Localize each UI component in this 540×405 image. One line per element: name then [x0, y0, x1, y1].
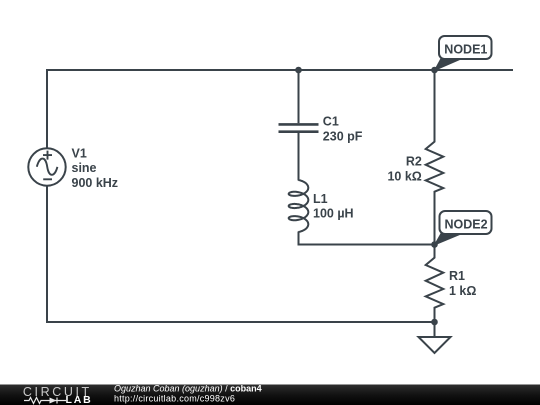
svg-text:R2: R2 [406, 155, 422, 169]
svg-text:LAB: LAB [66, 394, 93, 405]
svg-text:V1: V1 [72, 146, 87, 160]
svg-text:C1: C1 [323, 115, 339, 129]
svg-text:NODE1: NODE1 [444, 42, 487, 56]
svg-text:sine: sine [72, 161, 97, 175]
svg-text:http://circuitlab.com/c998zv6: http://circuitlab.com/c998zv6 [114, 393, 235, 403]
svg-text:100 µH: 100 µH [313, 207, 354, 221]
svg-text:NODE2: NODE2 [445, 218, 488, 232]
svg-text:230 pF: 230 pF [323, 129, 363, 143]
svg-text:900 kHz: 900 kHz [72, 176, 119, 190]
svg-text:L1: L1 [313, 192, 328, 206]
svg-text:1 kΩ: 1 kΩ [449, 284, 476, 298]
svg-text:Oguzhan Coban (oguzhan) / coba: Oguzhan Coban (oguzhan) / coban4 [114, 384, 262, 394]
svg-text:R1: R1 [449, 269, 465, 283]
svg-text:10 kΩ: 10 kΩ [387, 169, 421, 183]
